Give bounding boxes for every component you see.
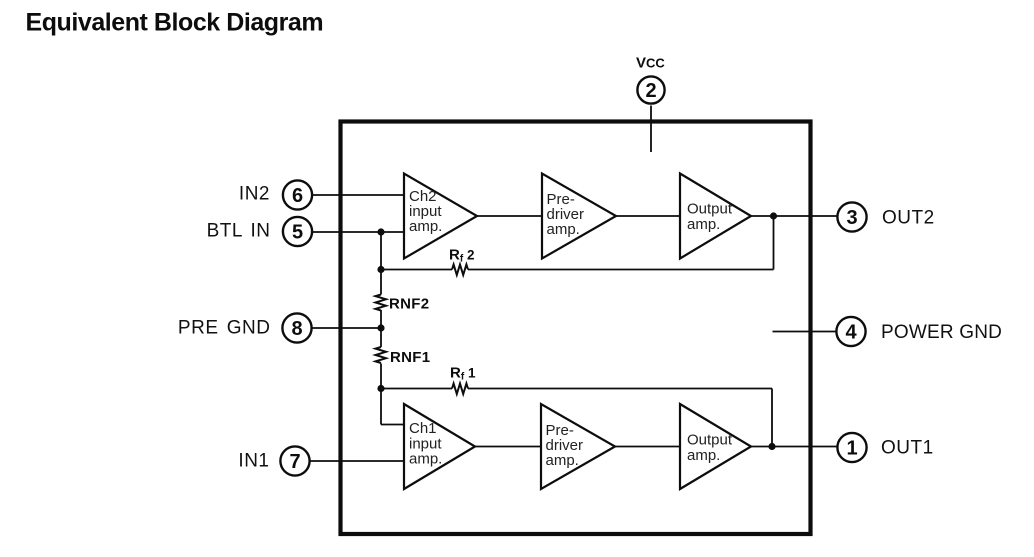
svg-text:amp.: amp. (687, 216, 720, 233)
svg-text:Ch1: Ch1 (409, 420, 437, 437)
svg-text:amp.: amp. (547, 221, 580, 238)
svg-text:6: 6 (292, 185, 303, 207)
svg-text:amp.: amp. (409, 451, 442, 468)
svg-text:Output: Output (687, 201, 733, 218)
svg-text:3: 3 (846, 207, 857, 229)
svg-text:2: 2 (645, 80, 656, 102)
svg-text:Output: Output (687, 432, 733, 449)
svg-text:VCC: VCC (636, 55, 665, 72)
svg-text:IN1: IN1 (238, 451, 269, 472)
svg-text:1: 1 (846, 438, 857, 460)
svg-text:POWER GND: POWER GND (881, 322, 1002, 343)
svg-text:RNF2: RNF2 (389, 296, 429, 313)
svg-text:RNF1: RNF1 (390, 349, 430, 366)
svg-text:7: 7 (289, 451, 300, 473)
svg-text:BTL IN: BTL IN (207, 221, 271, 242)
svg-text:OUT2: OUT2 (882, 208, 935, 229)
svg-text:amp.: amp. (687, 447, 720, 464)
svg-text:OUT1: OUT1 (881, 438, 934, 459)
svg-text:amp.: amp. (409, 218, 442, 235)
svg-text:4: 4 (845, 322, 857, 344)
svg-text:PRE GND: PRE GND (178, 318, 271, 339)
svg-text:5: 5 (292, 222, 303, 244)
svg-text:Equivalent Block Diagram: Equivalent Block Diagram (26, 9, 324, 37)
svg-text:amp.: amp. (546, 452, 579, 469)
svg-text:8: 8 (291, 318, 302, 340)
svg-text:IN2: IN2 (239, 184, 270, 205)
